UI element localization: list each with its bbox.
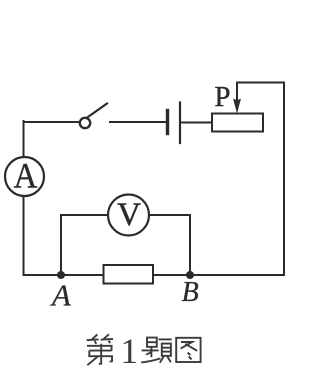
svg-text:A: A	[14, 156, 38, 196]
svg-text:P: P	[214, 81, 230, 113]
svg-text:V: V	[117, 197, 141, 233]
svg-text:1: 1	[120, 331, 138, 371]
svg-text:A: A	[50, 277, 72, 312]
svg-text:B: B	[182, 277, 199, 308]
